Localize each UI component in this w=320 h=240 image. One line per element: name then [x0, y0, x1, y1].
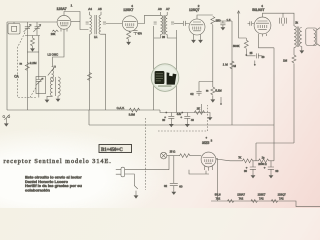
svg-text:40: 40 [191, 118, 194, 122]
svg-text:1K: 1K [197, 106, 201, 110]
padder box [36, 77, 46, 94]
capacitor U2 bypass [133, 31, 142, 36]
svg-text:12SK7: 12SK7 [123, 8, 133, 12]
svg-text:25 Ω: 25 Ω [170, 150, 176, 154]
capacitor electrolytic out2 [264, 161, 279, 179]
resistor surge [180, 154, 190, 158]
svg-text:3: 3 [211, 139, 213, 143]
resistor small inline [88, 73, 92, 81]
speaker [306, 28, 320, 46]
svg-text:35Z5: 35Z5 [202, 141, 209, 145]
capacitor tone pair [280, 13, 287, 26]
svg-text:1 M: 1 M [223, 63, 229, 67]
svg-text:L2 OSC: L2 OSC [48, 53, 60, 57]
svg-text:12SK7: 12SK7 [258, 192, 266, 196]
plug AC [116, 167, 125, 177]
wire AC up to pilot [168, 156, 170, 170]
svg-text:500K: 500K [233, 44, 240, 48]
wire screen vertical left of mark [153, 26, 155, 110]
svg-text:3.3M: 3.3M [129, 112, 136, 116]
capacitor U4 grid [248, 21, 255, 26]
wire tuning down left [26, 36, 28, 111]
svg-text:7A2: 7A2 [239, 197, 244, 201]
wire rectifier cathode [189, 170, 209, 174]
capacitor coupling [234, 52, 265, 68]
svg-text:*: * [206, 137, 208, 141]
wire U4 cathode [259, 36, 275, 48]
ground U2 cathode [126, 40, 131, 46]
svg-text:50L6GT: 50L6GT [252, 8, 264, 12]
svg-text:CA: CA [14, 75, 19, 79]
label heater 50L6 [215, 192, 221, 200]
svg-text:12SQ7: 12SQ7 [278, 192, 287, 196]
tube U2 12SK7 [122, 16, 137, 31]
wire IFT1 right down [101, 34, 106, 110]
capacitor C2 tuning [33, 22, 41, 36]
resistor cathode U2 [127, 31, 131, 39]
node junction filter 2 [181, 112, 183, 114]
wire speaker return [293, 48, 295, 56]
svg-text:02: 02 [190, 92, 194, 96]
svg-text:+: + [264, 166, 266, 170]
wire AF takeoff [199, 82, 213, 92]
capacitor line 02 [164, 156, 183, 195]
wire IFT1 left down [89, 34, 91, 110]
tube U4 50L6GT [254, 17, 271, 34]
wire U2 to IFT2 [138, 15, 161, 23]
capacitor grid U3 [184, 21, 189, 26]
ground detector [210, 95, 215, 102]
wire U1 plate to rail [64, 12, 89, 30]
tube U1 12SA7 [57, 15, 71, 29]
svg-text:1: 1 [71, 3, 73, 7]
wire AC neutral [125, 174, 135, 186]
resistor cathode U1 [51, 30, 59, 36]
label heater 12SA7 [237, 192, 245, 200]
tube U1 pins [61, 29, 67, 32]
capacitor AVC [220, 18, 231, 30]
wire U3 plate rail [197, 15, 213, 19]
wire volume vertical [231, 21, 233, 125]
resistor 1M output [292, 55, 296, 63]
ground U3 pin right [198, 35, 203, 44]
bus AVC B- [7, 110, 206, 113]
wire takeoff vertical [237, 11, 246, 38]
capacitor electrolytic out1 [244, 161, 256, 179]
credit paragraph [25, 175, 82, 193]
svg-text:7A2: 7A2 [279, 197, 284, 201]
svg-text:A5: A5 [98, 7, 102, 11]
wire IFT2 to U3 grid cap [174, 23, 183, 25]
svg-text:M: M [234, 64, 237, 68]
svg-text:5.1M: 5.1M [215, 89, 222, 93]
svg-text:12SA7: 12SA7 [237, 192, 245, 196]
ground osc [45, 96, 53, 102]
resistor R grid [31, 38, 35, 46]
svg-text:50: 50 [262, 56, 265, 59]
wire chassis dashed vertical [145, 118, 147, 190]
coil L2 osc trimmer [48, 66, 56, 82]
wire connector y52 [27, 51, 39, 53]
tube U5 pins [205, 166, 213, 170]
svg-text:20K: 20K [51, 32, 56, 36]
resistor heater 3 [271, 200, 278, 203]
svg-text:C.A.V.: C.A.V. [117, 106, 125, 110]
svg-text:02: 02 [164, 184, 168, 188]
capacitor electrolytic 40a [162, 113, 174, 128]
capacitor C1 tuning [24, 22, 32, 36]
transformer IFT2 [154, 12, 175, 35]
capacitor padder [36, 78, 44, 98]
lamp pilot [160, 152, 167, 159]
resistor heater 2 [251, 200, 258, 203]
wire U1 to osc coil [53, 32, 65, 67]
resistor 3.3M inline [129, 108, 139, 112]
ground filter end [206, 113, 212, 121]
svg-text:12SQ7: 12SQ7 [189, 8, 200, 12]
wire chassis dashed horizontal [158, 105, 208, 131]
svg-text:7A2: 7A2 [259, 197, 264, 201]
logo watermark [151, 64, 179, 92]
wire left vertical bus [6, 22, 8, 110]
switch power [134, 186, 139, 199]
wire AC hot [125, 169, 169, 171]
wire to rectifier [190, 155, 201, 157]
wire IFT2 left bottom [154, 35, 161, 39]
wire to padder [38, 36, 40, 80]
resistor 250K [211, 17, 215, 25]
node B+ dot [220, 97, 222, 105]
wire AVC top [215, 20, 232, 22]
label heater 12SK7 [258, 192, 266, 200]
svg-text:26: 26 [162, 35, 165, 39]
svg-text:1M: 1M [283, 59, 288, 63]
wire output vertical long [273, 48, 275, 161]
wire gang connector [25, 36, 40, 39]
resistor heater 1 [228, 200, 235, 203]
ground below R grid [30, 46, 35, 52]
svg-text:m: m [20, 62, 23, 66]
svg-text:2.2M: 2.2M [30, 61, 37, 65]
svg-text:B1+450+C: B1+450+C [101, 148, 123, 153]
tube U4 pins [259, 34, 267, 37]
wire heater feed [216, 159, 218, 202]
svg-text:470: 470 [138, 33, 143, 36]
ground output transformer [299, 47, 304, 54]
label box B+ [99, 145, 132, 153]
wire top bus left [7, 21, 57, 23]
svg-text:33: 33 [275, 169, 278, 173]
wire U4 plate rail [263, 13, 295, 26]
wire IFT2 right bottom [167, 35, 176, 39]
svg-text:A4: A4 [88, 7, 92, 11]
capacitor AF 02 [190, 91, 201, 96]
svg-text:250: 250 [216, 19, 221, 23]
svg-text:+: + [246, 166, 248, 170]
svg-text:1.5: 1.5 [227, 18, 231, 22]
antenna terminal box [8, 22, 20, 34]
arrow osc B- [56, 96, 61, 102]
wire IFT1 to U2 [106, 23, 122, 25]
wire speaker return lower [256, 63, 294, 160]
capacitor electrolytic 40b [180, 113, 194, 128]
bus B return lower [89, 110, 274, 125]
node junction filter 1 [165, 112, 167, 114]
svg-text:colaboración: colaboración [25, 187, 50, 192]
transformer osc windings [50, 77, 60, 96]
resistor 1M [230, 61, 234, 69]
wire B+ stub [200, 104, 202, 113]
wire heater string [211, 201, 320, 207]
label heater 12SQ7 [278, 192, 287, 200]
wire secondary vertical right of mark [176, 30, 178, 113]
transformer IFT1 [86, 12, 106, 34]
wire detector vertical [212, 25, 214, 87]
wire pilot row [167, 155, 180, 157]
wire U1 grid right [71, 21, 80, 23]
svg-text:25: 25 [250, 52, 253, 55]
tube U3 12SQ7 [189, 19, 205, 35]
resistor 5.1M [211, 87, 215, 95]
svg-text:I.F.: I.F. [94, 35, 98, 39]
transformer output [294, 26, 302, 48]
resistor 2.2M inline [25, 63, 29, 71]
svg-text:m: m [206, 89, 209, 93]
switch on-off [3, 114, 10, 126]
svg-text:50L6: 50L6 [215, 192, 221, 196]
svg-text:60: 60 [179, 184, 183, 188]
svg-text:receptor Sentinel modelo 314E.: receptor Sentinel modelo 314E. [4, 158, 112, 165]
wire gang dashed [18, 33, 37, 98]
tube U5 35Z5 rectifier [201, 152, 216, 167]
resistor 2000 cathode [253, 156, 274, 167]
svg-text:A7: A7 [166, 7, 170, 11]
resistor 7K cathode [216, 156, 253, 163]
svg-text:12SA7: 12SA7 [57, 7, 67, 11]
svg-text:A3: A3 [158, 7, 162, 11]
svg-text:7K: 7K [238, 156, 241, 160]
svg-text:2k: 2k [295, 21, 298, 25]
svg-text:1n: 1n [262, 156, 265, 160]
ground U3 pin left [191, 35, 196, 44]
svg-text:7A2: 7A2 [216, 197, 221, 201]
svg-text:4.5v: 4.5v [177, 113, 182, 116]
potentiometer 500K [233, 38, 248, 56]
resistor 1K filter [194, 111, 204, 115]
